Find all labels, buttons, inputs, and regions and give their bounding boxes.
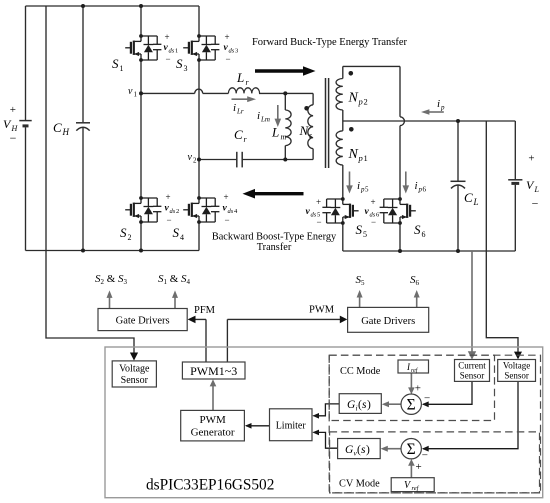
svg-text:CV Mode: CV Mode <box>339 479 380 490</box>
wire Gi to limiter <box>314 404 340 416</box>
svg-text:i: i <box>437 98 440 110</box>
node rail CL <box>456 249 460 253</box>
wire Np1 bottom to S5 <box>342 165 344 199</box>
arrow gate S6 <box>416 297 418 308</box>
svg-text:v: v <box>128 86 133 97</box>
arrow iLm <box>277 105 279 120</box>
wire v1 to hop <box>141 92 195 94</box>
wire S4 source to rail <box>198 222 200 251</box>
inductor Lr <box>228 88 259 94</box>
arrow sum1 to Gi <box>388 403 401 405</box>
svg-text:6: 6 <box>423 186 427 194</box>
svg-text:−: − <box>225 54 230 64</box>
wire v2 to Cr <box>199 159 236 161</box>
svg-text:): ) <box>367 399 371 411</box>
wire Lr to Ns corner <box>259 92 313 94</box>
wire Ns bottom lead <box>312 149 314 160</box>
wire Np2 bottom to tap <box>342 110 344 121</box>
svg-text:ds: ds <box>170 208 176 215</box>
svg-text:C: C <box>53 120 62 135</box>
svg-text:Transfer: Transfer <box>257 242 292 253</box>
transistor S3 <box>183 34 219 62</box>
svg-text:Sensor: Sensor <box>504 371 529 381</box>
box Vref <box>391 478 434 492</box>
wire v1 hop over S3 column <box>195 89 203 93</box>
svg-text:L: L <box>473 197 479 207</box>
wire hop to Lr <box>203 92 229 94</box>
svg-text:PWM: PWM <box>199 414 226 426</box>
svg-text:S: S <box>414 222 421 237</box>
wire Np2 top <box>343 65 400 67</box>
svg-text:−: − <box>165 54 170 64</box>
wire PFM line <box>192 319 206 362</box>
svg-text:PFM: PFM <box>194 305 216 316</box>
arrow ip5 <box>349 172 351 187</box>
wire VL bottom <box>514 185 516 251</box>
wire Ns top lead <box>312 93 314 104</box>
node tap CL <box>456 119 460 123</box>
svg-text:Σ: Σ <box>407 397 416 414</box>
svg-text:CC Mode: CC Mode <box>340 366 381 377</box>
summer sum1 <box>401 394 421 414</box>
transistor S1 <box>125 34 161 62</box>
wire Np2 top lead <box>342 66 344 78</box>
svg-text:i: i <box>233 102 236 114</box>
box current sensor <box>455 360 490 382</box>
wire CH column top <box>82 6 84 122</box>
svg-text:i: i <box>415 180 418 192</box>
svg-text:−: − <box>371 217 376 227</box>
svg-text:S: S <box>112 56 119 71</box>
svg-text:2: 2 <box>193 157 197 165</box>
arrow Vref to sum2 <box>410 465 412 478</box>
wire voltage sensor feed right <box>486 121 518 355</box>
svg-text:C: C <box>234 127 243 142</box>
wire S3 source to v2 <box>198 60 200 160</box>
polarity dot Ns <box>304 106 309 111</box>
svg-text:+: + <box>416 461 422 473</box>
arrowhead Gi to limiter <box>312 413 319 419</box>
svg-text:5: 5 <box>365 186 369 194</box>
svg-text:Gate Drivers: Gate Drivers <box>361 316 415 327</box>
wire S6 feed hop over tap <box>400 117 404 126</box>
wire limiter to pwmgen <box>246 425 270 427</box>
box dsPIC33EP16GS502 <box>105 347 543 498</box>
arrow ip6 <box>405 172 407 187</box>
svg-text:Σ: Σ <box>407 441 416 458</box>
capacitor Cr <box>236 152 238 168</box>
wire S6 feed lower <box>399 126 401 199</box>
node rail CH <box>81 249 85 253</box>
svg-text:Current: Current <box>458 361 486 371</box>
svg-text:i: i <box>257 110 260 122</box>
svg-text:N: N <box>299 123 310 138</box>
box gate drivers left <box>98 309 187 331</box>
wire S2 source to rail <box>140 222 142 251</box>
svg-text:Lm: Lm <box>260 116 270 124</box>
wire Np1 top lead <box>342 121 344 131</box>
svg-text:H: H <box>62 127 70 137</box>
svg-text:Sensor: Sensor <box>121 375 149 386</box>
wire CL bottom <box>457 185 459 251</box>
wire Lm top lead <box>284 93 286 110</box>
transistor S6 (mirrored) <box>380 197 416 225</box>
box Iref <box>398 360 429 373</box>
box voltage sensor left <box>112 361 156 387</box>
svg-text:S: S <box>176 56 183 71</box>
arrowhead VS to sum2 <box>422 446 429 452</box>
box CC mode dashed <box>329 355 494 420</box>
svg-text:1: 1 <box>134 91 138 99</box>
svg-text:−: − <box>166 215 171 225</box>
capacitor CH <box>76 122 90 124</box>
transistor S5 (mirrored) <box>322 197 358 225</box>
svg-text:Generator: Generator <box>191 427 235 439</box>
arrow iLr <box>232 98 249 100</box>
node rail S2 <box>139 249 143 253</box>
wire VL top <box>514 121 516 179</box>
svg-text:1: 1 <box>364 153 368 163</box>
wire Gv to limiter <box>314 432 338 448</box>
box limiter <box>270 409 313 441</box>
svg-text:−: − <box>422 450 428 462</box>
svg-text:1: 1 <box>175 48 178 55</box>
node v1 <box>139 91 143 95</box>
transistor S4 <box>183 196 219 224</box>
svg-text:−: − <box>316 217 321 227</box>
svg-text:L: L <box>534 185 540 194</box>
svg-text:s: s <box>309 131 312 140</box>
wire top rail <box>26 5 200 7</box>
svg-text:dsPIC33EP16GS502: dsPIC33EP16GS502 <box>146 477 274 494</box>
wire v2 column to S4 <box>198 160 200 199</box>
svg-text:S2 & S3: S2 & S3 <box>95 273 128 286</box>
svg-text:+: + <box>165 192 170 202</box>
transistor S2 <box>125 196 161 224</box>
arrow gate S2S3 <box>109 297 111 309</box>
box gate drivers right <box>348 307 429 332</box>
node top rail CH <box>81 4 85 8</box>
wire S1 source to v1 <box>140 60 142 93</box>
svg-text:S: S <box>173 225 180 240</box>
svg-text:6: 6 <box>422 230 426 239</box>
svg-text:1: 1 <box>120 64 124 73</box>
node Lm bottom <box>283 158 287 162</box>
svg-text:+: + <box>316 197 321 207</box>
svg-text:+: + <box>10 104 16 116</box>
svg-text:Gate Drivers: Gate Drivers <box>116 316 170 327</box>
svg-text:p: p <box>440 104 445 112</box>
arrowhead limiter to pwmgen <box>245 423 252 429</box>
svg-text:PWM1~3: PWM1~3 <box>190 364 237 378</box>
arrowhead VS feed right down <box>514 352 522 360</box>
node top rail S1 <box>139 4 143 8</box>
node v2 <box>197 158 201 162</box>
svg-text:m: m <box>281 133 287 142</box>
arrow backward energy transfer <box>243 189 304 199</box>
wire Cr to Ns bottom <box>243 159 314 161</box>
svg-text:p: p <box>358 97 363 107</box>
polarity dot Np2 <box>349 71 354 76</box>
arrowhead PFM into gate drivers left <box>188 316 196 324</box>
wire S1 drain column <box>140 6 142 36</box>
arrow Iref to sum1 <box>410 373 412 389</box>
svg-text:2: 2 <box>128 233 132 242</box>
node rail S6 <box>398 249 402 253</box>
svg-text:2: 2 <box>364 97 368 107</box>
box outer dashed <box>329 355 540 493</box>
battery VH <box>19 120 31 122</box>
wire PWM line <box>227 319 343 362</box>
inductor Lm <box>285 110 291 146</box>
svg-text:−: − <box>424 393 430 405</box>
box Gi <box>339 394 381 414</box>
svg-text:C: C <box>464 190 473 205</box>
svg-text:+: + <box>528 152 534 164</box>
svg-text:Lr: Lr <box>236 108 244 116</box>
svg-text:−: − <box>532 196 539 210</box>
box voltage sensor right <box>498 360 536 382</box>
svg-text:+: + <box>164 32 169 42</box>
svg-text:−: − <box>10 131 17 145</box>
svg-text:S: S <box>120 225 127 240</box>
svg-text:ref: ref <box>412 485 420 492</box>
transformer winding Ns <box>308 105 313 149</box>
svg-text:Voltage: Voltage <box>119 364 150 375</box>
box Gv <box>338 439 381 459</box>
svg-text:+: + <box>370 197 375 207</box>
wire S6 source to rail <box>399 223 401 251</box>
wire center tap to VL <box>343 120 516 122</box>
arrowhead Gv to limiter <box>312 430 319 436</box>
arrow PWMGen to PWM13 <box>212 385 214 411</box>
arrow ip <box>428 111 444 113</box>
wire VS to sum2 <box>423 381 518 448</box>
wire VH sense line to Voltage Sensor <box>46 6 134 356</box>
arrowhead PWM into gate drivers right <box>340 316 348 324</box>
wire CL top <box>457 121 459 181</box>
svg-text:3: 3 <box>235 48 238 55</box>
svg-text:L: L <box>236 70 244 85</box>
wire VH column bottom <box>25 127 27 250</box>
wire S5 source to rail <box>342 223 344 251</box>
wire VH column top <box>25 6 27 120</box>
svg-text:PWM: PWM <box>309 305 335 316</box>
polarity dot Np1 <box>349 127 354 132</box>
svg-text:ds: ds <box>228 208 234 215</box>
svg-text:v: v <box>188 152 193 163</box>
box PWM1~3 <box>182 362 245 379</box>
arrowhead VH sense down <box>130 353 138 361</box>
svg-text:Sensor: Sensor <box>460 371 485 381</box>
svg-text:Backward Boost-Type Energy: Backward Boost-Type Energy <box>212 232 337 243</box>
svg-text:4: 4 <box>180 233 184 242</box>
arrow gate S5 <box>359 297 361 308</box>
svg-text:−: − <box>224 215 229 225</box>
svg-text:Voltage: Voltage <box>503 361 530 371</box>
svg-text:i: i <box>357 180 360 192</box>
node Lm top <box>283 91 287 95</box>
svg-text:3: 3 <box>184 64 188 73</box>
svg-text:5: 5 <box>363 230 367 239</box>
battery VL <box>508 179 522 181</box>
svg-text:+: + <box>415 383 421 395</box>
transformer winding Np1 <box>336 131 343 165</box>
svg-text:N: N <box>348 91 359 106</box>
transformer core <box>325 78 327 168</box>
wire CH column bottom <box>82 128 84 251</box>
svg-text:S1 & S4: S1 & S4 <box>158 273 191 286</box>
svg-text:L: L <box>271 125 279 140</box>
arrow sum2 to Gv <box>387 448 401 450</box>
svg-text:S: S <box>356 222 363 237</box>
wire S3 drain column <box>198 6 200 36</box>
svg-text:N: N <box>348 147 359 162</box>
wire bottom rail left <box>26 250 200 252</box>
wire S6 feed upper <box>399 66 401 116</box>
svg-text:): ) <box>366 444 370 456</box>
svg-text:p: p <box>358 153 363 163</box>
svg-text:Limiter: Limiter <box>276 421 307 432</box>
arrow forward energy transfer <box>255 66 316 76</box>
wire Lm bottom lead <box>284 146 286 160</box>
svg-text:+: + <box>223 192 228 202</box>
summer sum2 <box>401 439 421 459</box>
box PWM generator <box>181 410 245 441</box>
arrowhead CS to sum1 <box>422 401 429 407</box>
wire current sensor to sum1 <box>423 381 472 404</box>
wire bottom rail right <box>343 250 516 252</box>
box CV mode dashed <box>330 432 540 493</box>
svg-text:Forward Buck-Type Energy Trans: Forward Buck-Type Energy Transfer <box>252 37 408 48</box>
arrow gate S1S4 <box>174 297 176 309</box>
svg-text:+: + <box>224 32 229 42</box>
transformer winding Np2 <box>336 79 343 111</box>
svg-text:2: 2 <box>176 208 179 215</box>
wire S2 drain from v1 <box>140 93 142 198</box>
arrow current sensor feed <box>471 251 473 353</box>
capacitor CL <box>451 180 466 182</box>
